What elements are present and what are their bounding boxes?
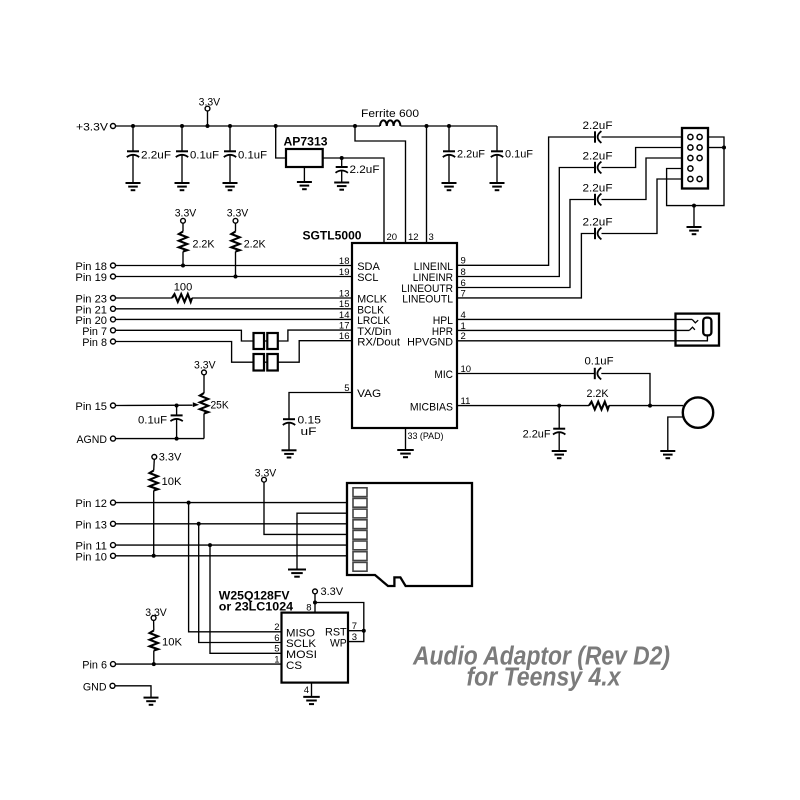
microphone MK1 <box>683 397 713 427</box>
junction AGND C8 <box>175 437 179 441</box>
svg-text:+3.3V: +3.3V <box>76 121 109 133</box>
pin 3 number <box>429 232 434 243</box>
svg-text:2.2K: 2.2K <box>587 388 610 400</box>
capacitor C1 2.2uF <box>127 126 171 183</box>
capacitor C13 0.1uF <box>585 355 614 379</box>
wire AP7313 output to SGTL pin 20 <box>323 158 384 243</box>
svg-text:AP7313: AP7313 <box>284 134 328 148</box>
pin 17 TX/Din label <box>339 321 391 338</box>
junction rail C5 <box>447 124 451 128</box>
wire Pin12 SD DAT0 <box>116 502 354 504</box>
wire MCLK left <box>116 297 172 299</box>
resistor R6 10K pullup <box>150 452 183 556</box>
IC U3 W25Q128FV body <box>219 588 348 682</box>
resistor R1 2.2K pullup <box>175 208 215 266</box>
svg-text:uF: uF <box>301 426 317 438</box>
power 3.3V flash <box>313 586 344 613</box>
wire HPR net <box>457 329 689 331</box>
jack plug symbol <box>703 318 711 336</box>
svg-text:2: 2 <box>274 622 279 633</box>
svg-text:0.1uF: 0.1uF <box>138 415 167 427</box>
wire LINEOUTL to cap <box>457 234 595 298</box>
junction rail VDDIO drop <box>353 124 357 128</box>
regulator U2 AP7313 <box>284 134 328 167</box>
pin 11 MICBIAS label <box>410 396 470 413</box>
junction rail C3 <box>228 124 232 128</box>
svg-text:SGTL5000: SGTL5000 <box>303 229 362 243</box>
wire flash vcc to RST WP <box>315 603 364 642</box>
junction header right <box>722 146 726 150</box>
power 3.3V pot <box>194 359 216 393</box>
pin 15 BCLK label <box>339 299 384 316</box>
wire Pin7 to TX pads <box>116 330 352 341</box>
header J1 pins <box>688 134 702 181</box>
junction header ground <box>692 204 696 208</box>
svg-text:Pin 8: Pin 8 <box>82 337 107 349</box>
pin 20 number <box>387 232 398 243</box>
terminal Pin 15 <box>75 401 115 413</box>
terminal Pin 19 <box>75 272 115 284</box>
capacitor C3 0.1uF <box>224 126 267 183</box>
pin 2 HPVGND label <box>407 331 466 348</box>
pin 19 SCL label <box>339 267 378 284</box>
pin 13 MCLK label <box>339 288 387 305</box>
junction Pin12 MISO riser <box>187 501 191 505</box>
capacitor C6 0.1uF <box>491 126 533 183</box>
terminal AGND <box>77 434 116 446</box>
pin 8 number flash <box>306 602 311 613</box>
svg-text:3.3V: 3.3V <box>227 208 249 220</box>
svg-text:2.2uF: 2.2uF <box>583 150 613 162</box>
svg-text:2.2uF: 2.2uF <box>523 429 551 441</box>
ground C1 <box>126 183 141 190</box>
svg-text:3: 3 <box>352 632 357 643</box>
terminal Pin 18 <box>75 261 115 273</box>
junction mic node <box>648 404 652 408</box>
solder pads RX pair <box>254 354 278 371</box>
header J1 body <box>682 128 708 189</box>
svg-text:AGND: AGND <box>77 434 108 446</box>
terminal Pin 20 <box>75 315 115 327</box>
wire Pin15 to wiper <box>116 404 193 406</box>
wire cap to header row 4 <box>602 179 683 234</box>
pin 33 PAD label <box>408 431 444 442</box>
flash pin 7 RST label <box>325 621 357 638</box>
wire MICBIAS to R5 <box>457 405 589 407</box>
svg-text:LINEINL: LINEINL <box>414 261 453 273</box>
svg-text:MICBIAS: MICBIAS <box>410 401 453 413</box>
capacitor C8 0.1uF <box>138 406 183 439</box>
terminal Pin 8 <box>82 337 115 349</box>
jack ring contact <box>689 327 695 330</box>
wire C13 to mic node <box>601 374 650 406</box>
capacitor C14 2.2uF <box>523 406 566 451</box>
svg-text:5: 5 <box>274 644 279 655</box>
svg-text:7: 7 <box>352 621 357 632</box>
junction SCL pullup <box>234 275 238 279</box>
svg-text:WP: WP <box>330 637 347 649</box>
wire HPL net <box>457 318 692 320</box>
wire cap to header row 1 <box>602 136 683 138</box>
terminal Pin 11 <box>75 541 115 553</box>
svg-text:Pin 7: Pin 7 <box>82 326 107 338</box>
ground C4 <box>334 183 349 190</box>
junction rail C2 <box>180 124 184 128</box>
ground microphone <box>660 451 675 458</box>
capacitor C4 2.2uF <box>336 158 380 183</box>
svg-text:2.2uF: 2.2uF <box>457 149 485 161</box>
pin 4 HPL label <box>433 310 466 327</box>
terminal GND <box>83 681 115 693</box>
wire SDA net <box>116 265 352 267</box>
junction rail C1 <box>131 124 135 128</box>
wire Pin11 SD CMD <box>116 544 354 546</box>
resistor R5 2.2K <box>587 388 610 410</box>
pin 5 VAG label <box>344 383 381 400</box>
wire MISO riser <box>189 503 282 632</box>
svg-text:2.2uF: 2.2uF <box>350 164 380 176</box>
junction AP7313 output C4 <box>340 156 344 160</box>
ground SD card <box>288 570 306 577</box>
junction flash RST <box>362 629 366 633</box>
flash pin 4 ground lead <box>304 683 312 697</box>
ground header <box>687 227 702 234</box>
wire mic ground <box>668 417 684 451</box>
svg-text:RX/Dout: RX/Dout <box>357 336 401 348</box>
svg-text:0.1uF: 0.1uF <box>585 355 614 367</box>
ground AP7313 <box>297 182 312 189</box>
svg-text:20: 20 <box>387 232 398 243</box>
pin 14 LRCLK label <box>339 310 390 327</box>
wire CS net <box>116 663 282 665</box>
svg-text:Pin 19: Pin 19 <box>75 272 107 284</box>
svg-text:3.3V: 3.3V <box>199 96 221 108</box>
svg-text:3.3V: 3.3V <box>175 208 197 220</box>
resistor R7 10K pullup <box>145 607 182 664</box>
solder pads TX pair <box>254 333 278 349</box>
ground C2 <box>175 183 190 190</box>
pin 1 HPR label <box>432 321 466 338</box>
wire header ground loop <box>667 137 724 206</box>
terminal Pin 10 <box>75 551 115 563</box>
wire SCLK riser <box>199 524 282 643</box>
svg-text:12: 12 <box>408 232 419 243</box>
svg-text:GND: GND <box>83 681 107 693</box>
terminal Pin 13 <box>75 519 115 531</box>
wire flash RST stub <box>348 630 364 632</box>
wire LRCLK net <box>116 318 352 320</box>
inductor L1 Ferrite 600 <box>361 108 419 126</box>
svg-text:1: 1 <box>274 655 279 666</box>
svg-text:0.1uF: 0.1uF <box>505 149 533 161</box>
junction Pin10 pullup <box>152 554 156 558</box>
svg-text:25K: 25K <box>211 400 230 412</box>
wire SD ground <box>297 513 354 569</box>
svg-text:2.2uF: 2.2uF <box>141 150 171 162</box>
svg-text:Pin 10: Pin 10 <box>75 551 107 563</box>
svg-text:3.3V: 3.3V <box>321 586 344 598</box>
IC U1 SGTL5000 body <box>303 229 458 428</box>
pin 6 LINEOUTR label <box>401 278 465 295</box>
svg-text:3: 3 <box>429 232 434 243</box>
flash pin 5 MOSI label <box>274 644 317 661</box>
svg-text:33 (PAD): 33 (PAD) <box>408 431 444 442</box>
junction Pin15 C8 <box>175 404 179 408</box>
svg-text:0.1uF: 0.1uF <box>238 150 267 162</box>
junction flash vcc branch <box>313 601 317 605</box>
junction Pin11 MOSI riser <box>208 543 212 547</box>
ground GND terminal <box>144 698 159 705</box>
capacitor C7 0.15uF <box>283 415 321 451</box>
wire header row2 right <box>708 147 724 149</box>
potentiometer R4 25K <box>200 393 230 439</box>
terminal Pin 21 <box>75 304 115 316</box>
wire +3.3V rail left <box>116 125 380 127</box>
pin 12 number <box>408 232 419 243</box>
wire Pin8 to RX pads <box>116 341 352 363</box>
resistor R2 2.2K pullup <box>227 208 267 277</box>
ground C7 <box>282 450 297 457</box>
SD card outline <box>347 483 472 586</box>
wire LINEINR to cap <box>457 168 595 277</box>
svg-text:6: 6 <box>274 633 279 644</box>
capacitor C10 2.2uF coupling <box>583 150 613 173</box>
capacitor C5 2.2uF <box>443 126 485 183</box>
junction rail pin3 riser <box>425 124 429 128</box>
svg-text:3.3V: 3.3V <box>159 452 182 464</box>
wire MIC to C13 <box>457 373 595 375</box>
flash pin 1 CS label <box>274 655 302 672</box>
svg-text:for Teensy 4.x: for Teensy 4.x <box>467 664 623 692</box>
svg-text:Pin 12: Pin 12 <box>75 498 107 510</box>
wire LINEOUTR to cap <box>457 200 595 288</box>
svg-text:2.2K: 2.2K <box>193 239 216 251</box>
junction MICBIAS C14 <box>557 404 561 408</box>
terminal Pin 23 <box>75 294 115 306</box>
svg-text:4: 4 <box>304 685 309 696</box>
wire header ground drop <box>693 206 695 227</box>
power 3.3V SD <box>255 468 354 535</box>
wire Pin10 SD CS <box>116 555 354 557</box>
svg-text:Pin 15: Pin 15 <box>75 401 107 413</box>
ground C5 <box>442 183 457 190</box>
junction CS pullup <box>152 662 156 666</box>
svg-text:VAG: VAG <box>357 388 381 400</box>
wire SGTL pad to ground <box>405 428 407 450</box>
wire LINEINL to cap <box>457 137 595 265</box>
svg-text:CS: CS <box>286 660 302 672</box>
SD card contacts <box>353 488 367 571</box>
svg-text:0.1uF: 0.1uF <box>190 150 219 162</box>
wire BCLK net <box>116 308 352 310</box>
terminal Pin 6 <box>82 660 115 672</box>
pin 10 MIC label <box>434 364 471 381</box>
svg-text:2.2K: 2.2K <box>244 239 267 251</box>
svg-text:8: 8 <box>306 602 311 613</box>
ground C14 <box>552 451 567 458</box>
terminal +3.3V input <box>76 121 116 133</box>
terminal Pin 7 <box>82 326 115 338</box>
wire AP7313 ground lead <box>303 167 305 182</box>
svg-text:0.15: 0.15 <box>298 415 321 427</box>
wire AGND net <box>116 438 204 440</box>
junction SDA pullup <box>181 264 185 268</box>
svg-text:SCL: SCL <box>357 272 378 284</box>
power 3.3V rail symbol <box>199 96 221 126</box>
jack tip contact <box>692 319 698 322</box>
wire cap to header row 3 <box>602 158 683 200</box>
resistor R3 100 <box>172 281 192 302</box>
pin 16 RX/Dout label <box>339 331 401 348</box>
svg-text:MIC: MIC <box>434 369 453 381</box>
wire Pin13 SD CLK <box>116 523 354 525</box>
svg-text:10K: 10K <box>162 636 183 648</box>
ground C6 <box>490 183 505 190</box>
junction Pin13 SCLK riser <box>197 522 201 526</box>
ground C3 <box>223 183 238 190</box>
svg-text:3.3V: 3.3V <box>194 359 216 371</box>
flash pin 3 WP label <box>330 632 357 649</box>
wire rail to AP7313 input <box>276 126 286 158</box>
wire HPVGND net <box>457 335 707 341</box>
wire +3.3V rail right of ferrite <box>401 125 498 127</box>
pin 7 LINEOUTL label <box>402 288 466 305</box>
svg-text:LINEOUTL: LINEOUTL <box>402 294 453 306</box>
flash pin 6 SCLK label <box>274 633 316 650</box>
svg-text:3.3V: 3.3V <box>255 468 277 480</box>
junction rail AP7313 feed <box>274 124 278 128</box>
capacitor C2 0.1uF <box>176 126 219 183</box>
wire R5 to microphone <box>609 405 683 407</box>
capacitor C9 2.2uF coupling <box>583 120 613 143</box>
wire SCL net <box>116 276 352 278</box>
jack J2 body <box>676 314 720 346</box>
svg-text:Ferrite 600: Ferrite 600 <box>361 108 419 120</box>
svg-text:Pin 13: Pin 13 <box>75 519 107 531</box>
svg-text:10K: 10K <box>162 476 183 488</box>
capacitor C12 2.2uF coupling <box>583 216 613 239</box>
wire MOSI riser <box>210 545 282 653</box>
title text <box>412 643 670 692</box>
wire VAG to C7 <box>289 393 352 420</box>
wire rail to SGTL pin 3 <box>426 126 428 243</box>
junction rail 3.3V <box>206 124 210 128</box>
ground flash <box>303 697 320 704</box>
capacitor C11 2.2uF coupling <box>583 182 613 205</box>
svg-text:or 23LC1024: or 23LC1024 <box>219 600 294 614</box>
pin 8 LINEINR label <box>413 267 466 284</box>
flash pin 2 MISO label <box>274 622 315 639</box>
wire rail to SGTL pin 12 <box>355 126 406 243</box>
terminal Pin 12 <box>75 498 115 510</box>
svg-text:2.2uF: 2.2uF <box>583 182 613 194</box>
pin 9 LINEINL label <box>414 256 466 273</box>
svg-text:2.2uF: 2.2uF <box>583 216 613 228</box>
wire cap to header row 2 <box>602 148 683 168</box>
pot wiper arrow <box>193 402 199 407</box>
ground SGTL pad <box>397 450 414 457</box>
svg-text:2.2uF: 2.2uF <box>583 120 613 132</box>
svg-text:100: 100 <box>174 281 193 293</box>
pin 18 SDA label <box>339 256 380 273</box>
svg-text:HPVGND: HPVGND <box>407 337 453 349</box>
wire GND terminal <box>115 686 151 698</box>
svg-text:3.3V: 3.3V <box>145 607 167 619</box>
svg-text:Pin 6: Pin 6 <box>82 660 107 672</box>
wire MCLK right <box>192 297 352 299</box>
